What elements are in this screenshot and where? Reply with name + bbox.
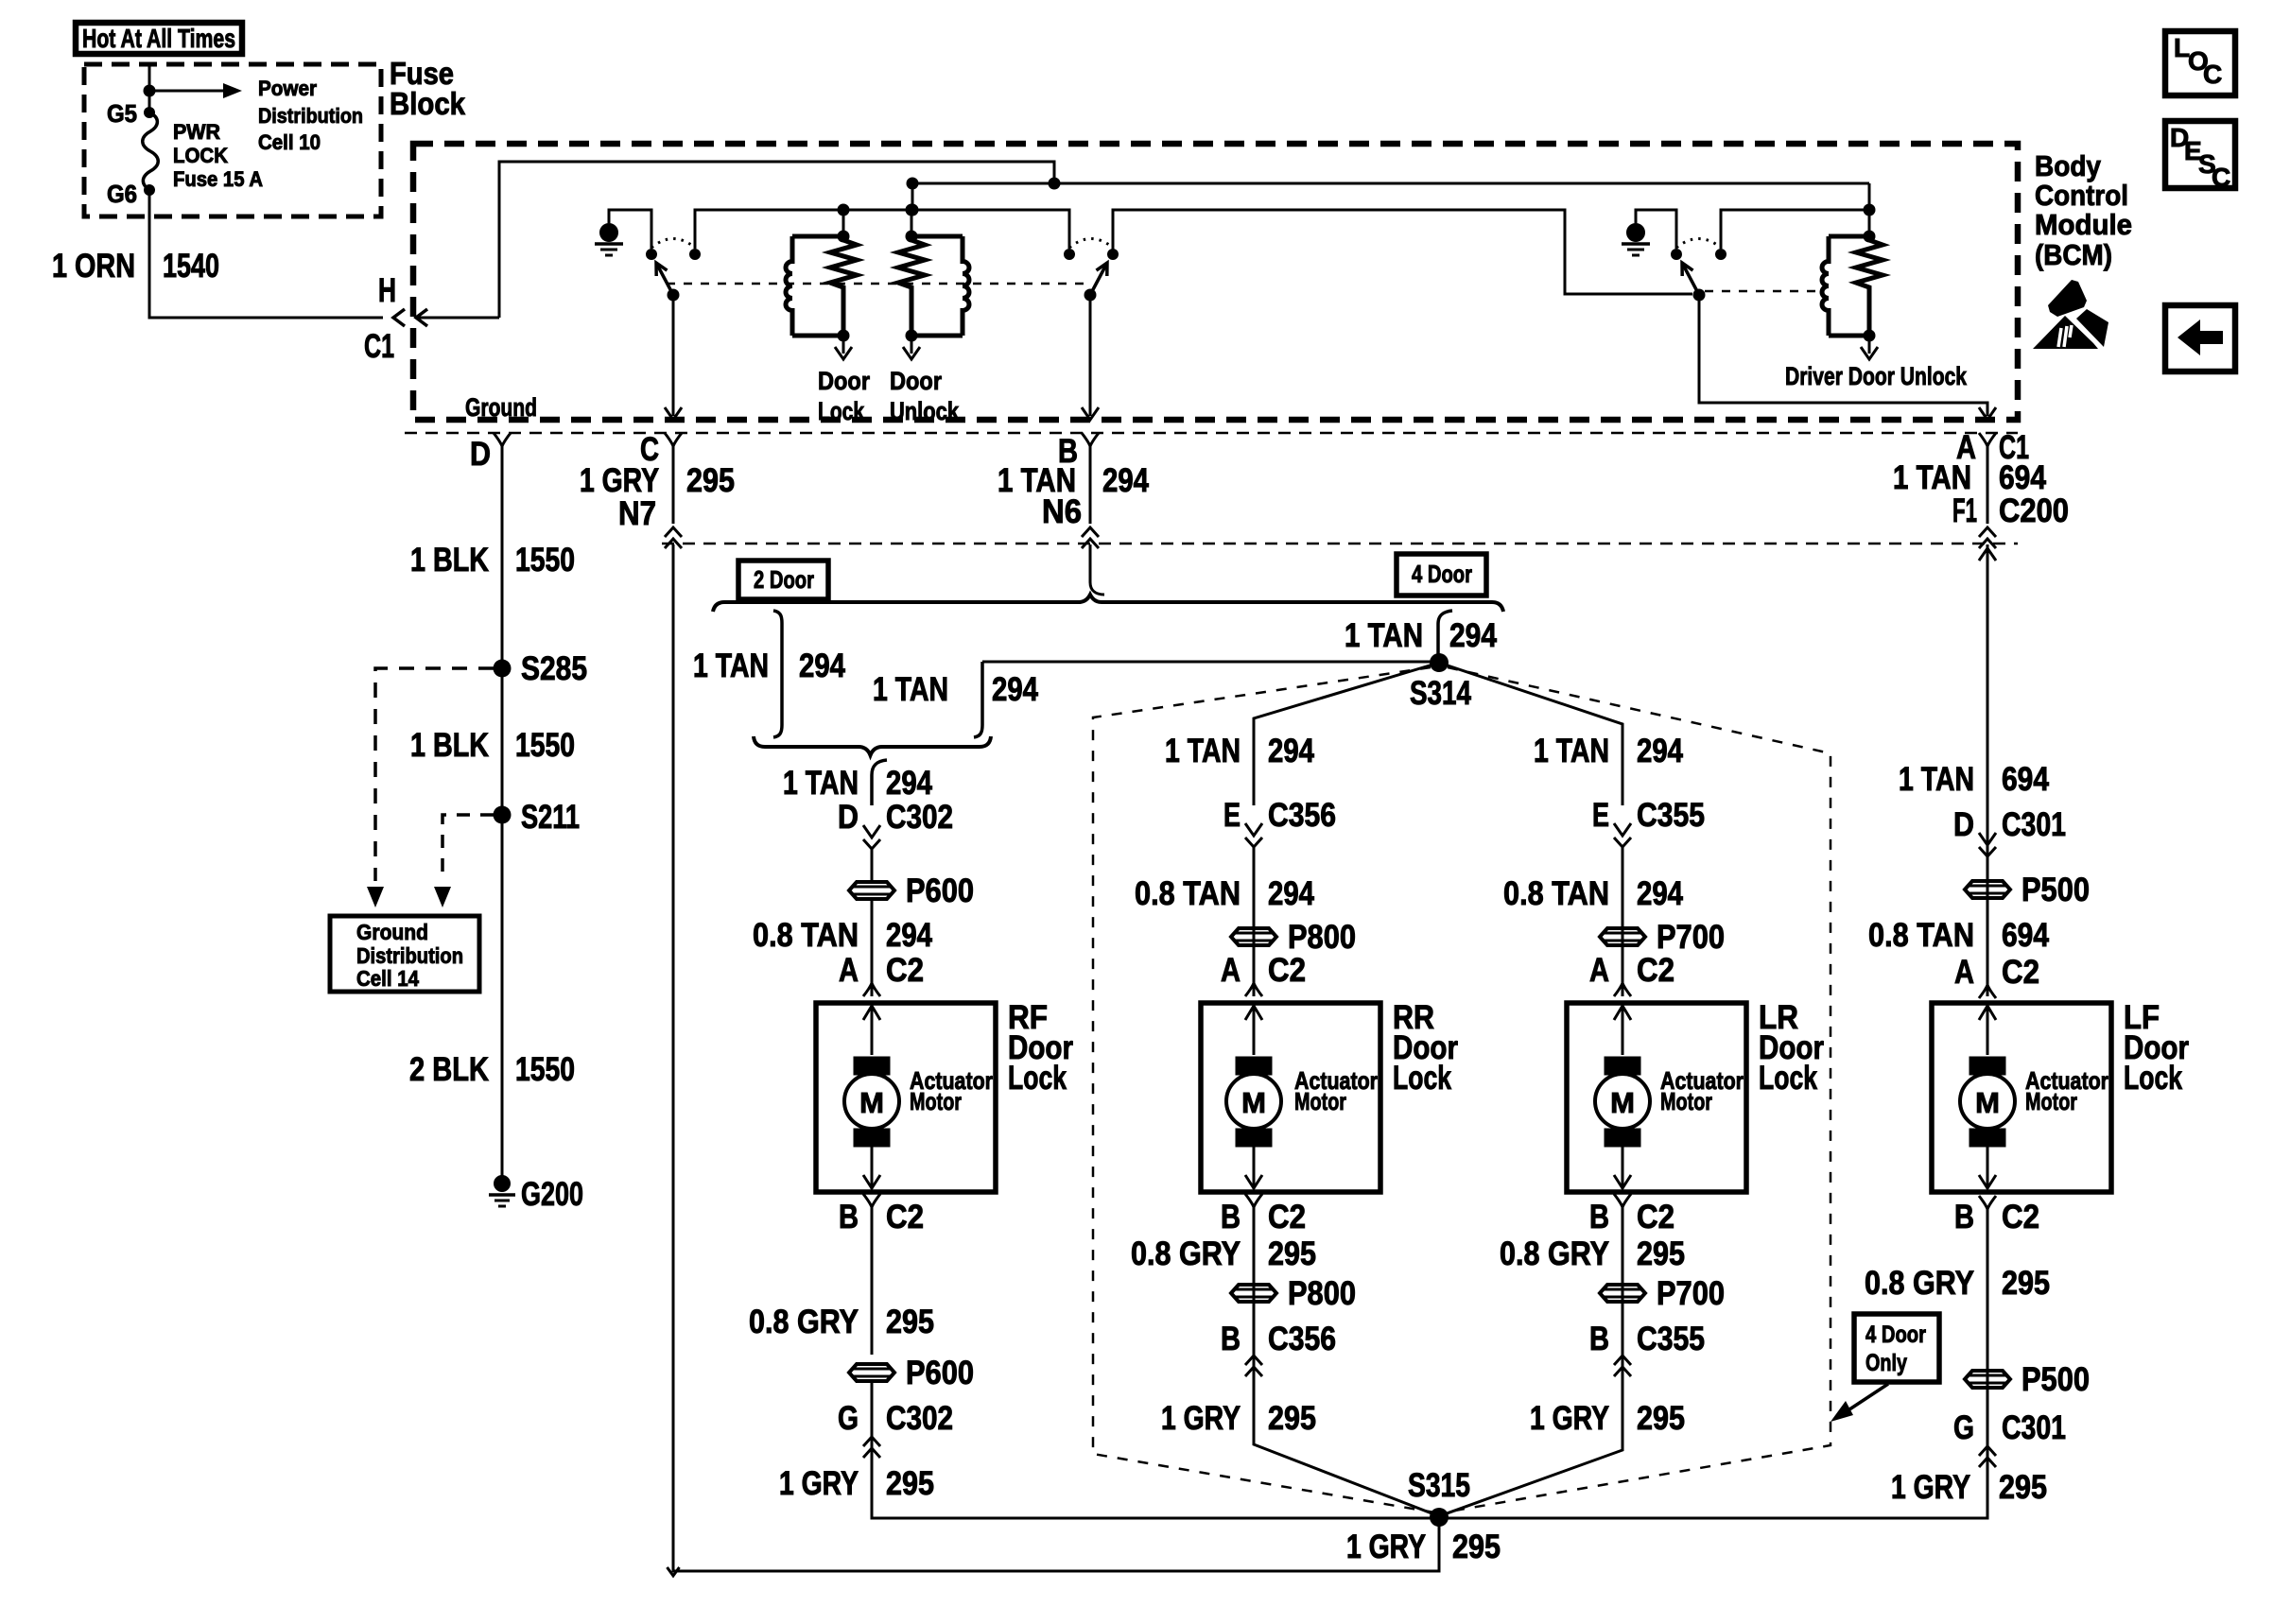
svg-text:C356: C356	[1268, 1321, 1336, 1357]
ground (BCM left)	[595, 224, 623, 256]
svg-text:C302: C302	[886, 799, 953, 836]
wire: merged 2-door wire down to RF branch	[872, 760, 887, 805]
node: feed junction	[1049, 178, 1061, 190]
switch (door lock output, pin C)	[646, 239, 701, 302]
actuator: LF Door Lock	[1932, 1003, 2111, 1192]
svg-text:P600: P600	[906, 1355, 974, 1391]
pin D of C1	[494, 433, 511, 446]
svg-text:H: H	[378, 272, 396, 309]
svg-text:P800: P800	[1288, 1275, 1356, 1312]
svg-text:0.8 TAN: 0.8 TAN	[753, 917, 859, 954]
wire: ground to driver switch contact	[1636, 210, 1676, 249]
svg-text:C: C	[2203, 60, 2222, 89]
node: junction to power distribution	[144, 85, 156, 97]
svg-text:G200: G200	[521, 1176, 583, 1213]
wire: S314 riser from brace	[1438, 611, 1452, 656]
svg-text:294: 294	[992, 671, 1038, 708]
svg-text:294: 294	[1449, 617, 1497, 654]
svg-text:P700: P700	[1657, 1275, 1725, 1312]
svg-text:294: 294	[1102, 462, 1149, 499]
svg-text:1 GRY: 1 GRY	[1891, 1469, 1970, 1506]
svg-text:Ground: Ground	[465, 393, 537, 422]
svg-text:N7: N7	[618, 495, 656, 532]
svg-text:B: B	[1221, 1199, 1241, 1235]
wire: battery feed into fuse block	[148, 64, 151, 112]
label: RF Door Lock	[1008, 999, 1073, 1097]
harness merge brace (bottom)	[754, 736, 991, 755]
svg-text:Distribution: Distribution	[258, 104, 363, 128]
svg-text:1 TAN: 1 TAN	[693, 648, 769, 684]
svg-text:Body: Body	[2035, 149, 2102, 182]
svg-text:P500: P500	[2021, 1361, 2090, 1398]
actuator: LR Door Lock	[1567, 1003, 1746, 1192]
svg-text:C2: C2	[1268, 1199, 1306, 1235]
svg-text:Motor: Motor	[910, 1087, 962, 1115]
svg-text:B: B	[839, 1199, 859, 1235]
svg-text:294: 294	[1268, 733, 1314, 769]
4-door region boundary (dashed)	[1093, 667, 1434, 1512]
svg-text:1550: 1550	[515, 542, 575, 579]
actuator: RR Door Lock	[1201, 1003, 1380, 1192]
terminal G6	[144, 184, 155, 196]
svg-text:Door: Door	[818, 367, 870, 395]
svg-text:0.8 GRY: 0.8 GRY	[1865, 1265, 1974, 1302]
svg-text:1 BLK: 1 BLK	[410, 727, 489, 764]
svg-text:M: M	[1241, 1086, 1266, 1119]
splice S285	[494, 660, 512, 678]
terminal G5	[144, 107, 155, 118]
fuse block dashed box	[84, 64, 381, 216]
svg-text:S314: S314	[1410, 675, 1471, 712]
svg-text:Motor: Motor	[1294, 1087, 1346, 1115]
svg-text:D: D	[1953, 806, 1974, 843]
svg-text:Lock: Lock	[1759, 1060, 1817, 1097]
relay coil: Door Unlock	[890, 231, 969, 426]
ESD sensitive device symbol	[2033, 280, 2108, 349]
wire: stub to S314	[982, 661, 1431, 664]
Body Control Module dashed box	[413, 144, 2018, 420]
svg-text:B: B	[1589, 1199, 1609, 1235]
dashed ref from S285 to ground distribution	[375, 668, 494, 881]
svg-text:Lock: Lock	[2124, 1060, 2182, 1097]
node	[838, 204, 850, 216]
label: LR Door Lock	[1759, 999, 1824, 1097]
svg-text:0.8 TAN: 0.8 TAN	[1135, 875, 1241, 912]
svg-text:295: 295	[1268, 1400, 1316, 1437]
pass-through P800 (RR down)	[1231, 1275, 1356, 1312]
svg-text:C2: C2	[886, 952, 924, 989]
pass-through P800 (RR up)	[1231, 919, 1356, 956]
svg-text:C1: C1	[364, 328, 394, 365]
svg-text:G: G	[1953, 1409, 1974, 1446]
svg-text:P600: P600	[906, 872, 974, 909]
dashed ref from S211 to ground distribution	[442, 815, 494, 881]
wire	[842, 210, 845, 236]
svg-text:P700: P700	[1657, 919, 1725, 956]
svg-text:295: 295	[886, 1304, 934, 1340]
svg-text:295: 295	[1452, 1529, 1501, 1565]
svg-text:E: E	[1223, 797, 1241, 834]
wire	[911, 210, 913, 236]
svg-text:Fuse 15 A: Fuse 15 A	[173, 167, 263, 191]
svg-text:Driver Door Unlock: Driver Door Unlock	[1785, 362, 1968, 390]
wire: right contact feed to driver door unlock switch	[1113, 210, 1692, 294]
wire: S314 to LR branch	[1439, 663, 1622, 805]
svg-text:1 GRY: 1 GRY	[1530, 1400, 1609, 1437]
wire: RR return	[1254, 1207, 1439, 1516]
svg-text:694: 694	[2002, 761, 2049, 798]
svg-text:1 GRY: 1 GRY	[779, 1465, 859, 1502]
wire: pin A through C200	[1987, 444, 1989, 524]
svg-text:M: M	[859, 1086, 884, 1119]
svg-text:295: 295	[686, 462, 735, 499]
label: RR Door Lock	[1393, 999, 1458, 1097]
svg-text:1 TAN: 1 TAN	[873, 671, 948, 708]
wire: LF branch from pin A	[1987, 544, 1989, 996]
wire: pin B wire into harness brace	[1089, 544, 1092, 582]
svg-text:C2: C2	[1637, 952, 1674, 989]
wire: pin D ground wire	[501, 444, 504, 1183]
svg-text:C2: C2	[1268, 952, 1306, 989]
label: LF Door Lock	[2124, 999, 2189, 1097]
svg-text:0.8 GRY: 0.8 GRY	[1500, 1235, 1609, 1272]
svg-text:C200: C200	[1999, 492, 2069, 529]
DESC reference box	[2165, 121, 2235, 192]
svg-text:694: 694	[1999, 459, 2046, 496]
svg-text:B: B	[1589, 1321, 1609, 1357]
wire/arrow: to Power Distribution Cell 10	[149, 90, 223, 93]
svg-text:Module: Module	[2035, 208, 2132, 241]
svg-text:294: 294	[1637, 875, 1683, 912]
svg-text:Hot At All Times: Hot At All Times	[82, 24, 235, 53]
node	[907, 178, 919, 190]
pass-through P700 (LR down)	[1600, 1275, 1725, 1312]
node	[1864, 204, 1876, 216]
svg-text:295: 295	[886, 1465, 934, 1502]
back arrow box	[2165, 305, 2235, 371]
svg-text:Lock: Lock	[818, 397, 865, 425]
svg-text:295: 295	[1637, 1235, 1685, 1272]
2-door stub wire	[773, 611, 782, 737]
svg-text:Block: Block	[390, 86, 466, 121]
ground (BCM right)	[1622, 224, 1650, 256]
svg-text:C302: C302	[886, 1400, 953, 1437]
svg-text:S285: S285	[521, 650, 587, 687]
svg-text:D: D	[838, 799, 859, 836]
svg-text:C356: C356	[1268, 797, 1336, 834]
wire: BCM internal feed bus (upper)	[912, 182, 1869, 185]
svg-text:(BCM): (BCM)	[2035, 238, 2112, 271]
svg-text:1 TAN: 1 TAN	[1165, 733, 1241, 769]
svg-text:294: 294	[799, 648, 845, 684]
wire: S314 to RR branch	[1254, 663, 1439, 805]
svg-text:A: A	[1589, 952, 1609, 989]
svg-text:1550: 1550	[515, 727, 575, 764]
svg-text:F1: F1	[1952, 492, 1977, 529]
svg-text:Motor: Motor	[2025, 1087, 2077, 1115]
svg-text:A: A	[1221, 952, 1241, 989]
wire: driver switch right contact to coil feed	[1721, 210, 1869, 249]
svg-text:Motor: Motor	[1660, 1087, 1712, 1115]
svg-text:1 TAN: 1 TAN	[783, 765, 859, 802]
node	[907, 204, 919, 216]
svg-text:295: 295	[1268, 1235, 1316, 1272]
svg-text:Door: Door	[890, 367, 942, 395]
svg-text:1550: 1550	[515, 1051, 575, 1088]
svg-text:Lock: Lock	[1393, 1060, 1451, 1097]
svg-text:1540: 1540	[163, 248, 219, 285]
relay coil: Door Lock	[786, 231, 870, 426]
splice S314	[1430, 653, 1449, 672]
wire	[911, 183, 914, 210]
pass-through P500 (LF up)	[1965, 872, 2090, 908]
svg-text:1 ORN: 1 ORN	[52, 248, 135, 285]
relay coil: Driver Door Unlock	[1785, 231, 1968, 391]
svg-text:294: 294	[886, 917, 932, 954]
svg-text:C: C	[2212, 163, 2230, 192]
svg-text:P500: P500	[2021, 872, 2090, 908]
svg-text:G: G	[838, 1400, 859, 1437]
wire: lower coil bus	[695, 210, 1069, 249]
wire: pin C through C200	[672, 444, 675, 524]
svg-text:C355: C355	[1637, 1321, 1705, 1357]
4-door region boundary right (dashed)	[1444, 667, 1831, 1512]
wire: RF return	[871, 1207, 874, 1355]
svg-text:294: 294	[886, 765, 932, 802]
svg-text:2 Door: 2 Door	[754, 565, 814, 594]
svg-text:C301: C301	[2002, 806, 2066, 843]
svg-text:0.8 GRY: 0.8 GRY	[749, 1304, 859, 1340]
relay armature linkage (dashed)	[667, 283, 1084, 285]
svg-text:M: M	[1610, 1086, 1635, 1119]
svg-text:C2: C2	[886, 1199, 924, 1235]
svg-text:Unlock: Unlock	[890, 397, 960, 425]
splice S315	[1430, 1508, 1449, 1527]
wire: switch to pin C	[672, 295, 675, 416]
switch (driver door unlock)	[1671, 239, 1726, 302]
label box: 4 Door	[1397, 554, 1486, 596]
svg-text:G6: G6	[107, 180, 137, 208]
svg-text:C355: C355	[1637, 797, 1705, 834]
svg-text:B: B	[1221, 1321, 1241, 1357]
wire: LF return	[1445, 1209, 1987, 1518]
svg-text:0.8 TAN: 0.8 TAN	[1503, 875, 1609, 912]
svg-text:S211: S211	[521, 799, 580, 836]
svg-text:694: 694	[2002, 917, 2049, 954]
svg-text:294: 294	[1268, 875, 1314, 912]
svg-text:1 TAN: 1 TAN	[1534, 733, 1609, 769]
wire: power riser inside BCM from pin H	[499, 162, 1054, 318]
node	[906, 204, 918, 216]
label box: Hot At All Times	[76, 23, 242, 54]
svg-text:4 Door: 4 Door	[1412, 560, 1472, 588]
svg-text:Cell 10: Cell 10	[258, 130, 321, 154]
pass-through P500 (LF down)	[1965, 1361, 2090, 1398]
pass-through P700 (LR up)	[1600, 919, 1725, 956]
svg-text:0.8 TAN: 0.8 TAN	[1868, 917, 1974, 954]
svg-text:C2: C2	[1637, 1199, 1674, 1235]
svg-text:G5: G5	[107, 99, 137, 128]
ground G200	[489, 1176, 515, 1207]
svg-text:294: 294	[1637, 733, 1683, 769]
relay armature linkage (dashed, right)	[1705, 290, 1823, 293]
wire: ground to switch contact	[609, 210, 651, 249]
pin C of C1	[665, 433, 682, 446]
svg-text:4 Door: 4 Door	[1865, 1322, 1926, 1348]
svg-text:2 BLK: 2 BLK	[409, 1051, 489, 1088]
svg-text:1 TAN: 1 TAN	[1345, 617, 1423, 654]
harness option brace (top)	[713, 595, 1503, 612]
svg-text:Control: Control	[2035, 179, 2128, 212]
connector half-arrow at C1 pin H (BCM side)	[416, 309, 427, 326]
svg-text:1 TAN: 1 TAN	[1893, 459, 1971, 496]
label box: 4 Door Only	[1854, 1314, 1939, 1382]
svg-text:A: A	[1954, 954, 1974, 991]
svg-text:C301: C301	[2002, 1409, 2066, 1446]
svg-text:Ground: Ground	[356, 920, 428, 944]
svg-text:1 BLK: 1 BLK	[410, 542, 489, 579]
wire: driver switch to pin A	[1699, 295, 1987, 416]
svg-text:N6: N6	[1042, 493, 1082, 530]
svg-text:B: B	[1954, 1199, 1974, 1235]
connector C200 row (thin dashed)	[662, 543, 2018, 545]
wire: 1 GRY 295 trunk from pin C to S315	[673, 544, 1439, 1571]
svg-text:1 TAN: 1 TAN	[1899, 761, 1974, 798]
pass-through P600 (RF down)	[849, 1355, 974, 1391]
actuator: RF Door Lock	[816, 1003, 996, 1192]
splice S211	[494, 806, 512, 824]
svg-text:295: 295	[1999, 1469, 2047, 1506]
pass-through P600 (RF up)	[849, 872, 974, 909]
svg-text:E: E	[1592, 797, 1609, 834]
svg-text:Cell 14: Cell 14	[356, 966, 419, 991]
svg-text:Distribution: Distribution	[356, 943, 463, 968]
arrow: 4 Door Only pointer	[1844, 1384, 1888, 1413]
4-door feed stub	[974, 662, 982, 737]
label box: 2 Door	[738, 561, 828, 599]
svg-text:1 GRY: 1 GRY	[580, 462, 659, 499]
wire: upper feed drop	[1868, 183, 1871, 236]
svg-text:P800: P800	[1288, 919, 1356, 956]
wire: pin B through C200	[1089, 444, 1092, 524]
switch (door unlock output, pin B)	[1064, 239, 1119, 302]
fuse F: PWR LOCK Fuse 15 A	[143, 112, 159, 190]
wire: LR return	[1439, 1207, 1622, 1516]
label box: Ground Distribution Cell 14	[330, 916, 479, 992]
svg-text:S315: S315	[1408, 1467, 1470, 1504]
svg-text:Only: Only	[1865, 1350, 1907, 1376]
connector half-arrow at C1 pin H (harness side)	[393, 309, 405, 326]
pin B of C1	[1082, 433, 1099, 446]
svg-text:295: 295	[2002, 1265, 2050, 1302]
connector C1 row (thin dashed)	[405, 432, 2018, 435]
LOC reference box	[2165, 31, 2235, 95]
svg-text:C2: C2	[2002, 1199, 2039, 1235]
svg-text:1 GRY: 1 GRY	[1346, 1529, 1426, 1565]
svg-text:D: D	[470, 436, 491, 473]
svg-text:Power: Power	[258, 77, 317, 100]
svg-text:Lock: Lock	[1008, 1060, 1067, 1097]
svg-text:LOCK: LOCK	[173, 144, 228, 167]
svg-text:C2: C2	[2002, 954, 2039, 991]
svg-text:0.8 GRY: 0.8 GRY	[1131, 1235, 1241, 1272]
wire: switch to pin B	[1089, 295, 1092, 416]
wire: 1 ORN 1540 from fuse to BCM pin H	[149, 190, 383, 318]
svg-text:A: A	[839, 952, 859, 989]
pin A of C1	[1979, 433, 1996, 446]
wire	[871, 849, 874, 882]
svg-text:M: M	[1975, 1086, 2000, 1119]
svg-text:295: 295	[1637, 1400, 1685, 1437]
svg-text:PWR: PWR	[173, 120, 220, 144]
svg-text:1 GRY: 1 GRY	[1161, 1400, 1241, 1437]
